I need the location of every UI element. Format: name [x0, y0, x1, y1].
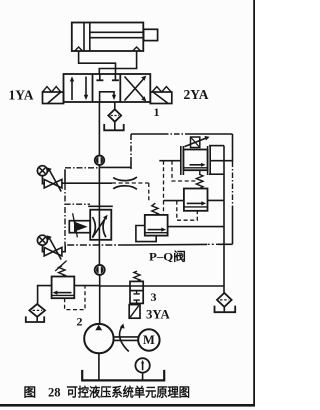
- valve 2 spring: [59, 266, 66, 277]
- pilot dashed valve B bottom loop: [177, 201, 198, 221]
- flow control orifice curves: [93, 217, 106, 237]
- wire cylinder left port to valve B: [79, 51, 116, 74]
- wire upper bowtie to left rail: [62, 182, 65, 184]
- svg-text:可控液压系统单元原理图: 可控液压系统单元原理图: [67, 385, 191, 400]
- wire P junction to top corner line: [99, 166, 131, 168]
- relief valve 2 body: [52, 277, 75, 299]
- electric motor circle: [138, 329, 159, 350]
- wire valve B left port: [164, 200, 184, 202]
- wire P line lower: [99, 275, 101, 324]
- solenoid 2YA springs: [152, 87, 171, 92]
- wire valve B right port: [208, 199, 225, 201]
- wire bowtie to throttle: [65, 182, 112, 184]
- shutoff valve lower arrow: [47, 235, 62, 259]
- wire gauge stem lower: [42, 245, 44, 252]
- valve A solenoid box: [191, 137, 200, 148]
- wire corner vertical x131: [130, 134, 132, 161]
- thermometer gauge: [135, 358, 149, 379]
- proportional solenoid triangle: [75, 222, 88, 232]
- wire valve A right port: [210, 160, 232, 162]
- proportional solenoid slash: [73, 213, 78, 237]
- page bottom border: [0, 404, 255, 407]
- flow control valve top double line: [88, 205, 113, 207]
- compensator valve C body: [145, 215, 168, 236]
- gauge point circle lower left: [37, 235, 47, 245]
- valve 1 center cell blocked port B: [112, 74, 119, 80]
- relief valve A left plate: [181, 146, 184, 175]
- wire valve A plate bottom link: [209, 173, 224, 175]
- valve 3 solenoid box: [129, 305, 140, 319]
- solenoid 1YA box: [43, 92, 64, 104]
- relief valve A seat line: [183, 167, 207, 169]
- valve B seat line: [184, 206, 208, 208]
- relief valve A right plate: [208, 146, 211, 175]
- svg-text:2: 2: [77, 315, 83, 329]
- valve A-B spring: [196, 170, 203, 188]
- svg-text:1YA: 1YA: [9, 88, 34, 103]
- shutoff valve lower bowtie: [44, 247, 62, 256]
- wire lower bowtie riser: [62, 245, 65, 252]
- valve A adjust arrow: [185, 136, 210, 147]
- top manifold line: [131, 133, 163, 135]
- svg-text:P–Q阀: P–Q阀: [149, 250, 186, 264]
- valve 3 blocked cell symbols: [133, 291, 139, 304]
- svg-text:1: 1: [154, 105, 160, 119]
- cylinder piston rod: [90, 32, 144, 37]
- directional valve 1 body: [64, 74, 151, 102]
- valve 1 left cell up arrow: [70, 76, 74, 100]
- cylinder left foot: [75, 47, 83, 51]
- wire valve 2 right port to P line: [74, 285, 99, 287]
- valve 1 left cell down arrow: [84, 77, 88, 101]
- wire gauge stem upper: [42, 176, 44, 184]
- piston rod end cap: [144, 29, 158, 40]
- wire P line upper: [98, 102, 100, 155]
- cylinder piston: [84, 23, 90, 52]
- test point circle junction upper: [95, 156, 104, 165]
- wire valve C feedback loop: [136, 226, 156, 242]
- valve C spring: [152, 203, 158, 215]
- unloading valve 3 body: [130, 281, 143, 303]
- rotation direction arc: [120, 324, 129, 352]
- wire pump suction: [98, 353, 100, 379]
- gauge point circle upper left: [37, 166, 47, 176]
- wire unloading line P to right column: [100, 285, 224, 287]
- valve C arrow: [148, 228, 167, 232]
- flow control adjust arrow: [92, 215, 107, 238]
- pilot dashed through throttle to spring C: [112, 182, 149, 184]
- manifold bottom dash-dot line: [218, 243, 233, 245]
- pilot dashed valve 2 loop: [65, 286, 85, 310]
- pump motor shaft: [114, 337, 139, 341]
- wire valve C right port: [168, 226, 224, 228]
- filter under valve 1: [108, 109, 121, 121]
- valve 2 adjust slash: [55, 261, 66, 271]
- solenoid 1YA springs: [43, 87, 61, 92]
- wire P line middle: [98, 165, 100, 265]
- valve 1 right cell crossed arrows: [125, 76, 147, 102]
- valve 1 center cell blocked port A: [96, 74, 103, 80]
- tank left: [26, 316, 44, 322]
- relief valve A arrow: [190, 163, 206, 167]
- main tank: [82, 370, 164, 381]
- svg-text:2YA: 2YA: [184, 87, 209, 102]
- filter left: [29, 304, 45, 317]
- proportional solenoid box: [69, 221, 90, 233]
- wire valve A left port: [159, 160, 181, 162]
- cylinder right foot: [133, 47, 141, 51]
- valve 1 center cell P-T bridge: [100, 92, 117, 102]
- wire cylinder right port to valve A: [99, 51, 136, 74]
- valve 3 spring: [134, 271, 140, 281]
- shutoff valve upper arrow: [47, 167, 62, 191]
- pump circle: [84, 324, 113, 353]
- right outer column: [232, 134, 234, 162]
- left rail dash-dot vertical: [64, 169, 66, 184]
- flow control valve enclosure top stub: [65, 203, 90, 205]
- right inner column: [223, 146, 225, 294]
- shutoff valve upper bowtie: [44, 179, 62, 188]
- pilot dashed A-line to valve C top: [163, 161, 165, 201]
- pilot dashed to spring A: [172, 161, 196, 181]
- svg-text:M: M: [143, 333, 155, 347]
- valve C seat line: [145, 232, 168, 234]
- reducing valve B body: [184, 189, 208, 211]
- test point circle junction lower: [95, 265, 105, 275]
- flow control valve box: [90, 210, 111, 240]
- throttle on pilot line: [113, 177, 137, 189]
- valve 2 arrow: [53, 291, 72, 295]
- wire valve A plate top link: [209, 145, 224, 147]
- tank under filter: [104, 122, 124, 131]
- wire valve T port down: [114, 102, 116, 110]
- valve 2 seat line: [52, 294, 75, 296]
- svg-text:图: 图: [24, 386, 37, 400]
- right tank: [215, 306, 236, 313]
- right filter: [217, 293, 232, 307]
- page right border: [253, 0, 255, 407]
- svg-text:3YA: 3YA: [146, 308, 170, 322]
- svg-text:3: 3: [151, 290, 157, 304]
- wire valve 2 left port to filter: [38, 286, 52, 305]
- svg-text:28: 28: [48, 386, 61, 400]
- valve B arrow: [187, 201, 206, 205]
- hydraulic cylinder body: [72, 23, 144, 52]
- solenoid 2YA box: [150, 92, 172, 104]
- pump outlet triangle: [95, 325, 102, 331]
- relief valve A body: [183, 150, 207, 171]
- pilot line rail to P junction: [65, 167, 99, 169]
